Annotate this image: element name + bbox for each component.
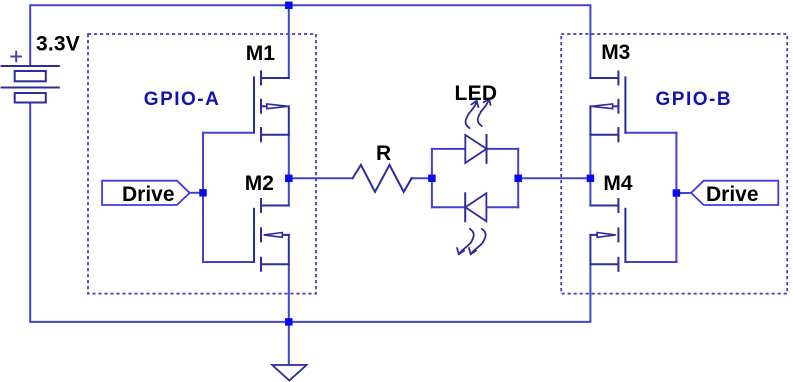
svg-text:LED: LED — [455, 82, 498, 105]
svg-text:Drive: Drive — [122, 183, 175, 206]
svg-text:M1: M1 — [246, 42, 275, 65]
svg-text:Drive: Drive — [706, 183, 759, 206]
svg-text:3.3V: 3.3V — [36, 33, 80, 56]
svg-text:GPIO-A: GPIO-A — [144, 89, 221, 110]
svg-text:M3: M3 — [601, 41, 630, 64]
svg-text:M2: M2 — [245, 172, 274, 195]
svg-text:R: R — [376, 142, 391, 165]
svg-text:GPIO-B: GPIO-B — [656, 89, 733, 110]
svg-text:M4: M4 — [603, 172, 632, 195]
